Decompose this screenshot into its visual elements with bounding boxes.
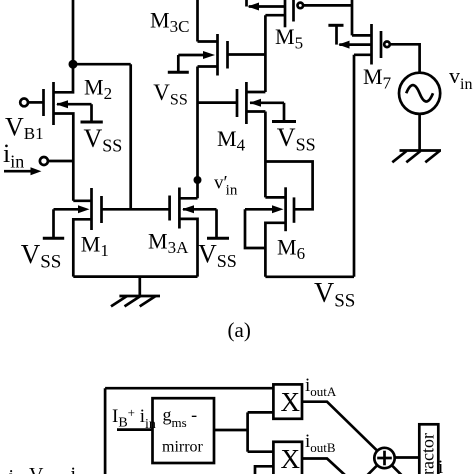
wire vin to ground	[418, 114, 421, 151]
wire junction to M1 gate branch horizontal	[73, 63, 131, 66]
svg-text:M3C: M3C	[150, 8, 189, 37]
svg-text:VB1: VB1	[5, 113, 44, 144]
wire gms output	[214, 429, 248, 432]
wire multiplier B output diagonal	[302, 459, 346, 474]
wire to multiplier B input 1	[248, 450, 274, 453]
svg-text:mirror: mirror	[162, 439, 204, 456]
label i_in with arrow	[3, 139, 41, 175]
wire to multiplier A input 2	[248, 411, 274, 414]
wire box bottom	[73, 275, 197, 278]
node M2 drain junction	[69, 60, 78, 69]
svg-text:M7: M7	[363, 64, 392, 93]
svg-text:ractor: ractor	[418, 433, 438, 474]
svg-text:M5: M5	[275, 24, 303, 53]
svg-text:v′in: v′in	[214, 173, 238, 199]
wire gate rail M1-M3A	[102, 208, 170, 211]
supply VSS of M1 bulk	[43, 209, 64, 238]
supply T of M7 bulk	[328, 25, 343, 44]
cropped caption glyph tops at bottom edge	[9, 464, 77, 474]
svg-text:VSS: VSS	[21, 239, 62, 273]
svg-text:VSS: VSS	[198, 240, 237, 272]
svg-text:i: i	[71, 464, 77, 474]
transistor M3A	[170, 188, 217, 277]
svg-text:iin: iin	[3, 139, 24, 172]
svg-text:M2: M2	[84, 75, 112, 104]
svg-text:(a): (a)	[228, 318, 251, 342]
svg-text:VSS: VSS	[84, 124, 123, 156]
node v'_in	[194, 176, 202, 184]
transistor M4	[198, 82, 285, 124]
terminal i_in	[40, 157, 48, 165]
supply stem of M5 bulk	[245, 0, 248, 7]
block subtractor	[418, 424, 439, 474]
wire i_in to drain rail	[48, 160, 73, 163]
wire M3C drain to top	[196, 0, 199, 42]
wire right rail to M7 source	[353, 55, 356, 277]
block diagram feedback left edge	[104, 388, 107, 474]
supply VSS of M3C bulk	[168, 55, 189, 72]
source vin	[399, 73, 440, 114]
svg-text:i: i	[9, 466, 15, 474]
terminal VB1	[20, 99, 28, 107]
transistor M5	[248, 0, 303, 27]
supply VSS of M4 bulk	[272, 103, 296, 122]
wire adder bottom-right stub	[392, 465, 402, 474]
transistor M2	[28, 64, 92, 201]
transistor M1	[54, 188, 102, 277]
wire vertical down to gate rail	[129, 64, 132, 209]
wire M4 source to M6 drain	[264, 112, 267, 198]
svg-text:vin: vin	[449, 63, 472, 93]
svg-text:M3A: M3A	[148, 229, 189, 258]
svg-text:VSS: VSS	[314, 278, 355, 312]
wire bottom rail VSS	[265, 275, 354, 278]
svg-text:X: X	[281, 444, 301, 474]
wire branch to M6 gate	[265, 162, 312, 210]
wire M5 source / M4 drain vertical	[264, 15, 267, 92]
svg-text:X: X	[281, 387, 301, 417]
svg-text:V: V	[29, 464, 44, 474]
supply VSS of M3A bulk	[207, 209, 229, 238]
svg-text:M6: M6	[277, 235, 305, 264]
wire top feed to M2 drain	[72, 0, 75, 64]
wire M3C source to M3A drain vertical	[196, 67, 199, 199]
wire M5 gate to M7 drain	[303, 0, 371, 35]
svg-text:VSS: VSS	[153, 80, 187, 109]
transistor M7	[338, 24, 390, 65]
wire input to gms mirror	[117, 428, 153, 431]
ground vin	[392, 151, 441, 163]
svg-text:M1: M1	[81, 232, 109, 261]
transistor M3C	[178, 34, 227, 76]
supply VSS of M2 bulk	[81, 104, 103, 122]
svg-text:gms -: gms -	[163, 405, 198, 431]
svg-text:ioutB: ioutB	[305, 431, 336, 455]
transistor M6	[245, 187, 294, 276]
adder	[374, 448, 394, 468]
svg-text:IB+ iin: IB+ iin	[112, 405, 156, 432]
multiplier X A	[273, 384, 302, 418]
svg-text:ioutA: ioutA	[305, 375, 337, 399]
svg-text:i: i	[438, 457, 443, 474]
svg-text:VSS: VSS	[277, 123, 316, 155]
wire M3C gate to cascode node	[228, 53, 266, 56]
multiplier X B	[273, 442, 302, 474]
wire to multiplier B input 2	[255, 466, 273, 474]
wire adder to subtractor	[395, 456, 420, 459]
wire multiplier A output to adder	[302, 402, 377, 451]
svg-text:M4: M4	[217, 126, 246, 155]
wire top edge to multiplier A input 1	[105, 387, 273, 390]
block gms mirror	[153, 398, 215, 463]
wire adder bottom-left stub	[368, 465, 378, 474]
ground main	[111, 277, 160, 307]
wire M7 gate to vin	[390, 44, 420, 72]
wire splitter vertical	[246, 412, 249, 451]
